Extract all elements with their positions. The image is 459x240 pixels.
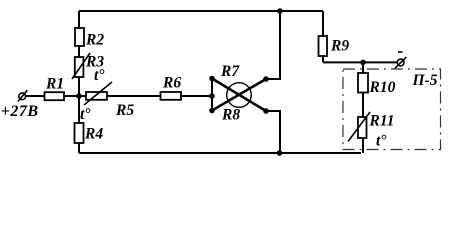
svg-text:t°: t°	[80, 106, 91, 123]
svg-text:+27В: +27В	[1, 103, 39, 120]
svg-text:t°: t°	[94, 67, 105, 84]
svg-text:R4: R4	[84, 126, 103, 143]
svg-text:R10: R10	[369, 79, 396, 96]
svg-text:R7: R7	[220, 63, 240, 80]
svg-text:R11: R11	[369, 113, 395, 130]
svg-text:t°: t°	[376, 133, 387, 150]
svg-text:П-5: П-5	[412, 72, 438, 89]
svg-text:R9: R9	[330, 38, 349, 55]
svg-text:R8: R8	[221, 107, 240, 124]
svg-text:R6: R6	[162, 75, 181, 92]
svg-text:R5: R5	[115, 102, 134, 119]
svg-text:R2: R2	[85, 32, 104, 49]
svg-text:R1: R1	[45, 76, 64, 93]
